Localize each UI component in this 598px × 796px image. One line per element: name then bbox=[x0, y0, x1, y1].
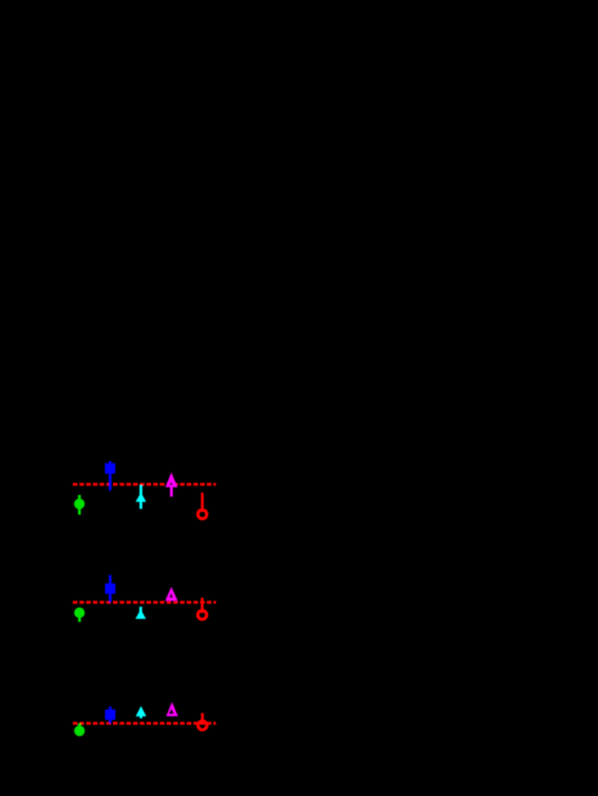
errorbar blue series point 2 row2 bbox=[109, 576, 112, 601]
errorbar green series point 1 row2 bbox=[78, 610, 81, 622]
errorbar red series point 5 row3 bbox=[201, 713, 204, 724]
errorbar blue series point 2 row3 bbox=[109, 707, 112, 724]
marker green filled circle row1 bbox=[74, 499, 85, 510]
marker blue filled square row1 bbox=[105, 463, 115, 473]
marker green filled circle row3 bbox=[74, 726, 85, 737]
reference dotted line row1 bbox=[73, 483, 216, 486]
marker cyan filled triangle row2 bbox=[135, 609, 146, 619]
errorbar green series point 1 row3 bbox=[78, 724, 81, 731]
errorbar cyan series point 3 row1 bbox=[139, 485, 142, 509]
marker red open circle row3 bbox=[198, 721, 207, 730]
errorbar cyan series point 3 row2 bbox=[139, 607, 142, 615]
marker blue filled square row2 bbox=[105, 583, 115, 593]
marker green filled circle row2 bbox=[74, 608, 85, 619]
marker cyan filled triangle row1 bbox=[136, 492, 147, 502]
marker magenta open triangle row2 bbox=[165, 587, 178, 601]
errorbar red series point 5 row2 bbox=[201, 598, 204, 613]
errorbar cyan series point 3 row3 bbox=[140, 708, 143, 718]
reference dotted line row2 bbox=[73, 601, 216, 604]
errorbar blue series point 2 row1 bbox=[109, 462, 112, 489]
marker red open circle row1 bbox=[198, 510, 207, 519]
errorbar green series point 1 row1 bbox=[78, 495, 81, 515]
marker red open circle row2 bbox=[198, 610, 207, 619]
errorbar magenta series point 4 row1 bbox=[170, 478, 173, 497]
reference dotted line row3 bbox=[73, 722, 216, 725]
marker magenta open triangle row3 bbox=[166, 702, 178, 716]
errorbar red series point 5 row1 bbox=[201, 493, 204, 512]
marker cyan filled triangle row3 bbox=[136, 706, 147, 716]
marker magenta open triangle row1 bbox=[165, 472, 177, 487]
marker blue filled square row3 bbox=[105, 710, 115, 720]
